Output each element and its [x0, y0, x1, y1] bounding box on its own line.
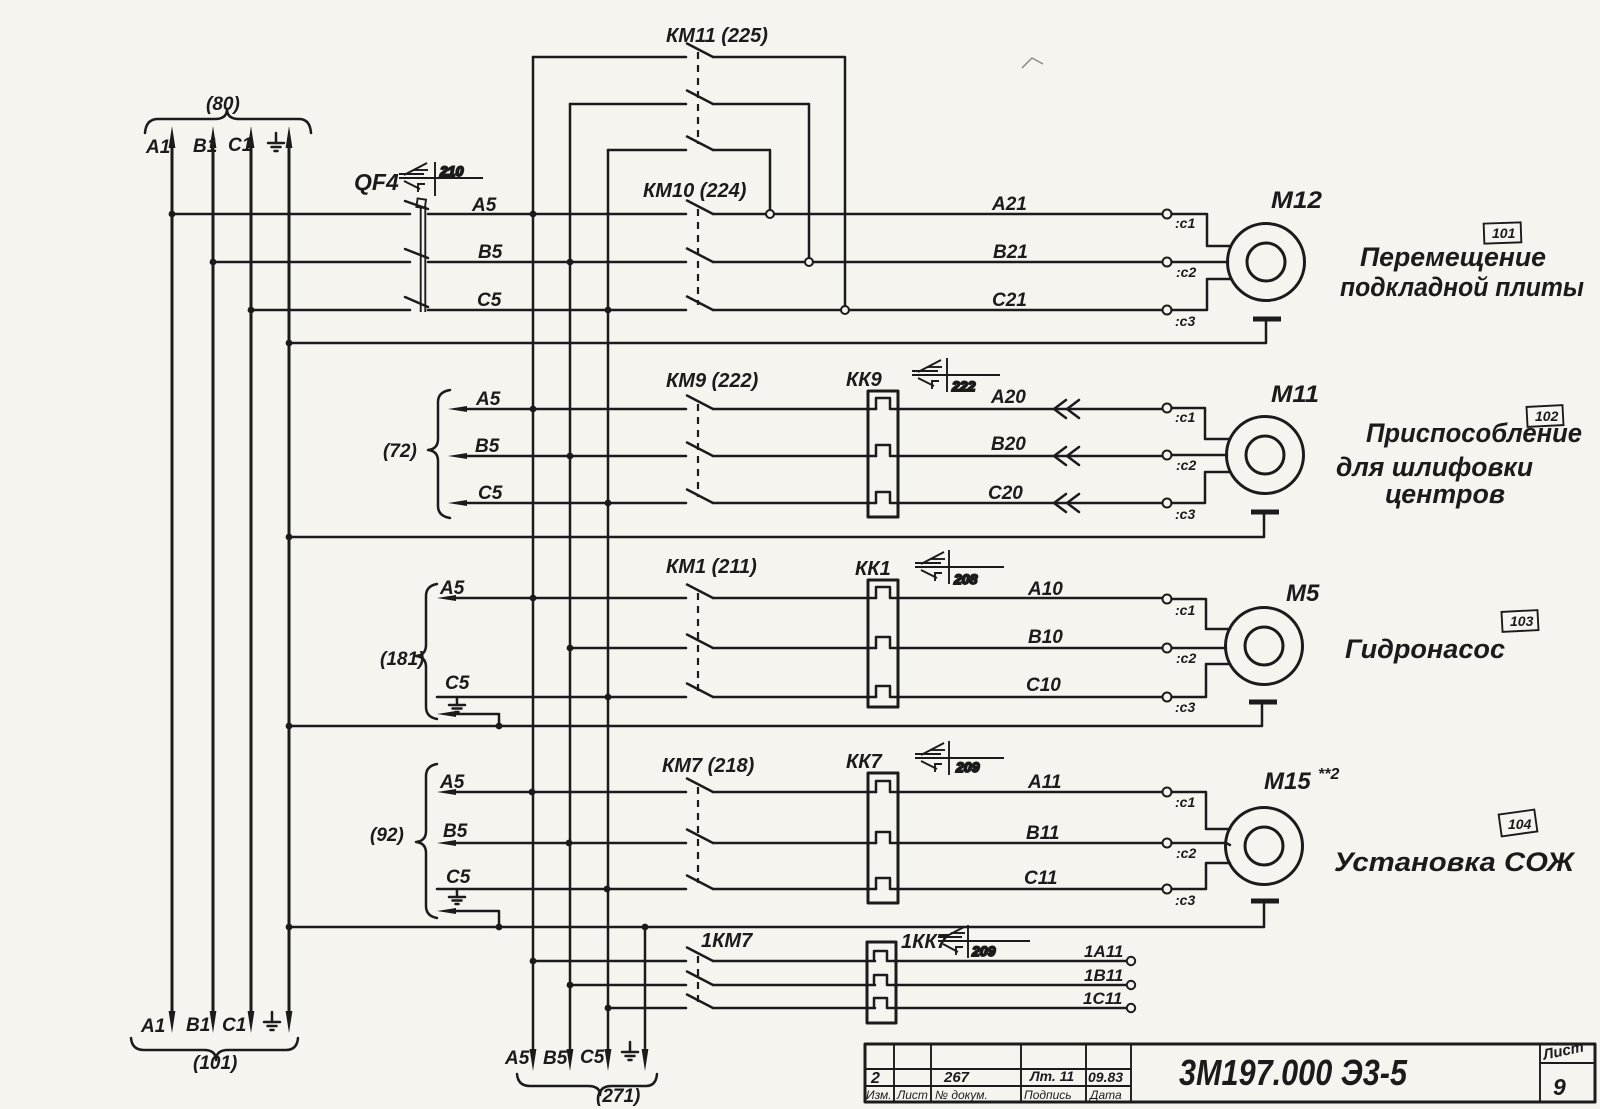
svg-text:С21: С21 [992, 290, 1027, 311]
svg-text:А5: А5 [439, 578, 465, 599]
contactor KM11 pole2 [570, 91, 809, 260]
svg-text:267: 267 [943, 1069, 970, 1086]
terminal M12 :c3 [1163, 306, 1196, 330]
ground bar M15 [1251, 899, 1279, 904]
svg-text:Изм.: Изм. [866, 1088, 892, 1102]
svg-text:С11: С11 [1024, 868, 1057, 889]
svg-text::с2: :с2 [1176, 457, 1196, 473]
wire B5 from B1 to QF4 [213, 261, 410, 264]
wire C21 [849, 290, 1163, 311]
motor M12 [1228, 187, 1323, 301]
bus A1 [140, 126, 175, 1037]
node C5 bus group72 [605, 500, 612, 507]
svg-text:QF4: QF4 [354, 169, 399, 195]
node PE tap4 [286, 924, 293, 931]
svg-text:1КК7: 1КК7 [901, 931, 949, 953]
chevrons C20 [1054, 494, 1079, 512]
svg-text:В1: В1 [186, 1015, 210, 1036]
contactor KM10 pole2 [687, 249, 805, 263]
1KM7 linkage [697, 956, 699, 1003]
node A5 bus group5 [530, 958, 537, 965]
title block frame [865, 1044, 1595, 1102]
svg-text:М11: М11 [1271, 381, 1319, 408]
svg-text:Дата: Дата [1088, 1088, 1122, 1102]
svg-text:209: 209 [971, 943, 996, 959]
wire M15 stub c1 [1172, 792, 1231, 829]
ground symbol group181 [449, 697, 465, 712]
bus PE ground [286, 126, 293, 1033]
ground symbol top left [268, 133, 284, 151]
node A5 bus group92 [529, 789, 536, 796]
svg-text:104: 104 [1508, 816, 1532, 832]
terminal 1B11 [1084, 966, 1135, 989]
wire M5 stub c2 [1172, 647, 1227, 650]
wire A5 tap group92 [437, 772, 686, 795]
svg-text:С5: С5 [477, 290, 502, 311]
note 104 box [1499, 810, 1538, 837]
wire 1C tap [608, 1007, 686, 1010]
svg-text:208: 208 [953, 571, 978, 587]
svg-text:подкладной плиты: подкладной плиты [1340, 272, 1584, 302]
stray scan mark [1022, 58, 1043, 68]
wire B5 QF4 to KM10 [428, 261, 686, 264]
svg-text:С5: С5 [446, 867, 471, 888]
wire M11 stub c2 [1172, 454, 1228, 457]
svg-text:Лт. 11: Лт. 11 [1029, 1068, 1074, 1084]
wire M15 stub c3 [1172, 863, 1231, 889]
contactor KM9 pole3 [687, 490, 876, 504]
wire M5 stub c1 [1172, 599, 1231, 629]
svg-text:КК7: КК7 [846, 751, 883, 773]
svg-text:А1: А1 [140, 1016, 165, 1037]
node C5 bus group92 [604, 886, 611, 893]
contactor 1KM7 pole1 [687, 948, 875, 962]
wire B tap group181 [570, 647, 686, 650]
chevrons B20 [1054, 447, 1079, 465]
ground symbol group92 [449, 889, 465, 904]
note 103 box [1502, 610, 1539, 632]
ground symbol bottom middle [622, 1042, 638, 1060]
svg-text:(271): (271) [596, 1086, 640, 1107]
node PE tap1 [286, 340, 293, 347]
svg-text:1С11: 1С11 [1083, 989, 1122, 1008]
svg-text:А10: А10 [1027, 579, 1063, 600]
wire C5 tap group181 [437, 673, 686, 697]
svg-text:1А11: 1А11 [1084, 942, 1123, 961]
bus A5 vertical [532, 57, 535, 1052]
bus B1 [186, 126, 217, 1036]
svg-text:210: 210 [439, 163, 464, 179]
svg-text:2: 2 [870, 1070, 880, 1087]
svg-text::с2: :с2 [1176, 264, 1196, 280]
note M11 function text [1336, 418, 1582, 509]
thermal relay KK7 [846, 751, 1163, 903]
wire M5 stub c3 [1172, 664, 1231, 697]
svg-text:Лист: Лист [896, 1088, 928, 1102]
node KM10-KM11 output C [841, 306, 849, 314]
thermal relay KK9 [846, 369, 1163, 517]
svg-text:(181): (181) [380, 649, 424, 670]
title block inner lines [865, 1044, 1595, 1102]
terminal M5 :c1 [1163, 595, 1196, 619]
svg-text:В10: В10 [1028, 627, 1063, 648]
bus C5 vertical [607, 150, 610, 1052]
svg-text:1КМ7: 1КМ7 [701, 930, 753, 952]
svg-text:КК1: КК1 [855, 558, 891, 580]
wire M15 stub c2 [1172, 843, 1231, 845]
svg-text:В20: В20 [991, 434, 1026, 455]
svg-text::с3: :с3 [1175, 506, 1195, 522]
svg-text::с3: :с3 [1175, 313, 1195, 329]
bus C1 [222, 126, 254, 1036]
chevrons A20 [1054, 400, 1079, 418]
wire 1B tap [570, 984, 686, 987]
brace (101) bottom [131, 1038, 298, 1074]
svg-text:КМ7 (218): КМ7 (218) [662, 755, 755, 777]
terminal M12 :c2 [1163, 258, 1197, 281]
svg-text:М5: М5 [1286, 580, 1320, 607]
wire C5 tap group72 [448, 483, 686, 506]
wire A5 QF4 to KM10 [428, 213, 686, 216]
wire A21 [774, 194, 1163, 215]
svg-text:С20: С20 [988, 483, 1023, 504]
svg-text:В21: В21 [993, 242, 1028, 263]
KK7 trip cross-reference 209 [915, 741, 1004, 775]
terminal M5 :c2 [1163, 644, 1197, 667]
svg-text:№ докум.: № докум. [935, 1088, 988, 1102]
svg-text:М12: М12 [1271, 187, 1323, 214]
title block entries [870, 1068, 1123, 1087]
svg-text:центров: центров [1385, 479, 1505, 509]
svg-text:Приспособление: Приспособление [1366, 418, 1582, 448]
contactor KM1 pole1 [687, 585, 876, 599]
ground symbol bottom left [264, 1012, 280, 1030]
svg-text:КМ11 (225): КМ11 (225) [666, 25, 768, 47]
svg-text:А1: А1 [145, 137, 170, 158]
KM11 linkage [697, 52, 699, 144]
svg-text:С10: С10 [1026, 675, 1061, 696]
svg-text:А21: А21 [991, 194, 1027, 215]
terminal M12 :c1 [1163, 210, 1196, 232]
KM1 linkage [697, 593, 699, 691]
contactor KM10 pole3 [687, 297, 841, 311]
wire C5 from C1 to QF4 [251, 309, 410, 312]
bus PE bottom drop [642, 927, 649, 1071]
wire A5 from A1 to QF4 [172, 213, 410, 216]
node C5 bus tap [605, 307, 612, 314]
svg-text:В5: В5 [543, 1048, 568, 1069]
contactor KM10 pole1 [687, 201, 766, 215]
svg-text::с1: :с1 [1175, 794, 1195, 810]
contactor 1KM7 pole3 [687, 995, 875, 1009]
svg-text:Подпись: Подпись [1024, 1088, 1072, 1102]
motor M11 [1227, 381, 1320, 494]
wire C5 tap group92 [437, 867, 686, 889]
node A5 bus tap [530, 211, 537, 218]
svg-text:**2: **2 [1318, 766, 1339, 783]
svg-text:101: 101 [1492, 225, 1516, 241]
node B1-B5 tap [210, 259, 217, 266]
QF4 trip cross-reference 210 [399, 162, 483, 196]
wire PE to M15 ground [289, 904, 1264, 927]
KM9 linkage [697, 404, 699, 497]
contactor KM11 pole1 [533, 44, 845, 308]
motor M15 [1226, 766, 1340, 885]
node B5 bus group92 [566, 840, 573, 847]
svg-text:В5: В5 [478, 242, 503, 263]
KK1 trip cross-reference 208 [915, 550, 1004, 587]
svg-text:КМ9 (222): КМ9 (222) [666, 370, 759, 392]
svg-text:222: 222 [951, 378, 976, 394]
wire 1A tap [533, 960, 686, 963]
wire A5 tap group72 [448, 389, 686, 412]
svg-text::с2: :с2 [1176, 650, 1196, 666]
terminal 1A11 [1084, 942, 1135, 965]
terminal M5 :c3 [1163, 693, 1196, 716]
node PE bottom tap [642, 924, 649, 931]
node A5 bus group72 [530, 406, 537, 413]
svg-text:А5: А5 [504, 1048, 530, 1069]
svg-text:С1: С1 [222, 1015, 246, 1036]
node B5 bus group181 [567, 645, 574, 652]
wire C5 QF4 to KM10 [428, 309, 686, 312]
bus A5 bottom arrow [504, 1048, 536, 1071]
node B5 bus group72 [567, 453, 574, 460]
svg-text:С5: С5 [580, 1047, 605, 1068]
svg-text:3М197.000 Э3-5: 3М197.000 Э3-5 [1179, 1052, 1408, 1093]
motor M5 [1226, 580, 1320, 685]
brace (181) [380, 584, 437, 719]
brace (80) top [145, 94, 311, 133]
wire PE to M12 ground [289, 321, 1266, 343]
contactor KM7 pole3 [687, 876, 876, 890]
svg-text:(80): (80) [206, 94, 240, 115]
wire PE stub group92 [437, 908, 499, 927]
svg-text:А5: А5 [475, 389, 501, 410]
node PE tap3 [286, 723, 293, 730]
svg-text:В5: В5 [443, 821, 468, 842]
node A1-A5 tap [169, 211, 176, 218]
note 102 box [1527, 405, 1564, 427]
svg-text:для шлифовки: для шлифовки [1336, 452, 1533, 482]
wire PE to M11 ground [289, 514, 1264, 537]
bus B5 bottom arrow [543, 1048, 573, 1071]
contactor KM11 pole3 [608, 137, 770, 211]
thermal relay 1KK7 [867, 931, 1127, 1023]
wire PE to M5 ground [289, 705, 1262, 726]
svg-text:С5: С5 [478, 483, 503, 504]
svg-text:КК9: КК9 [846, 369, 883, 391]
contactor KM7 pole1 [687, 779, 876, 793]
ground bar M12 [1253, 317, 1281, 322]
wire M11 stub c3 [1172, 472, 1230, 503]
svg-text::с2: :с2 [1176, 845, 1196, 861]
wire M12 stub c3 [1172, 279, 1232, 310]
KM10 linkage [697, 209, 699, 305]
svg-text:М15: М15 [1264, 768, 1311, 795]
node KM10-KM11 output B [805, 258, 813, 266]
ground bar M5 [1249, 700, 1277, 705]
node PE stub group92 [496, 924, 503, 931]
terminal 1C11 [1083, 989, 1135, 1012]
svg-text::с3: :с3 [1175, 892, 1195, 908]
svg-text:А5: А5 [439, 772, 465, 793]
svg-text:В1: В1 [193, 136, 217, 157]
brace (72) [383, 390, 450, 518]
title block row labels [866, 1088, 1122, 1102]
terminal M15 :c3 [1163, 885, 1196, 909]
node B5 bus group5 [567, 982, 574, 989]
svg-text:1В11: 1В11 [1084, 966, 1123, 985]
svg-text:Перемещение: Перемещение [1360, 242, 1546, 272]
wire M12 stub c1 [1172, 214, 1232, 246]
node KM10-KM11 output A [766, 210, 774, 218]
terminal M11 :c1 [1163, 404, 1196, 426]
wire A5 tap group181 [437, 578, 686, 601]
svg-text:(101): (101) [193, 1053, 237, 1074]
terminal M11 :c2 [1163, 451, 1197, 474]
svg-text:С5: С5 [445, 673, 470, 694]
ground bar M11 [1251, 510, 1279, 515]
terminal M15 :c2 [1163, 839, 1197, 862]
breaker QF4 [354, 169, 428, 312]
svg-text:КМ10 (224): КМ10 (224) [643, 180, 747, 202]
wire B5 tap group92 [437, 821, 686, 846]
wire M11 stub c1 [1172, 408, 1230, 439]
svg-text:Гидронасос: Гидронасос [1345, 634, 1505, 664]
svg-text:9: 9 [1553, 1074, 1566, 1100]
title block sheet label [1541, 1039, 1586, 1100]
KK9 trip cross-reference 222 [912, 358, 1000, 394]
terminal M11 :c3 [1163, 499, 1196, 523]
contactor KM9 pole2 [687, 443, 876, 457]
brace (92) [370, 764, 437, 918]
node B5 bus tap [567, 259, 574, 266]
svg-text:(92): (92) [370, 825, 404, 846]
wire B5 tap group72 [448, 436, 686, 459]
svg-text:В5: В5 [475, 436, 500, 457]
svg-text::с3: :с3 [1175, 699, 1195, 715]
svg-text:103: 103 [1510, 613, 1534, 629]
1KK7 trip cross-reference 209 [938, 925, 1030, 959]
svg-text:В11: В11 [1026, 823, 1059, 844]
note M12 function text [1340, 242, 1584, 302]
contactor KM1 pole3 [687, 684, 876, 698]
node PE tap2 [286, 534, 293, 541]
node C5 bus group5 [605, 1005, 612, 1012]
svg-text:С1: С1 [228, 135, 252, 156]
brace (271) [517, 1074, 657, 1107]
node PE stub group181 [496, 723, 503, 730]
svg-text:(72): (72) [383, 441, 417, 462]
node C5 bus group181 [605, 694, 612, 701]
wire M12 stub c2 [1172, 261, 1229, 264]
bus C5 bottom arrow [580, 1047, 611, 1071]
note 101 box [1484, 222, 1522, 243]
svg-text:А20: А20 [990, 387, 1026, 408]
contactor KM7 pole2 [687, 830, 876, 844]
wire PE stub group181 [437, 711, 499, 726]
node C1-C5 tap [248, 307, 255, 314]
contactor 1KM7 pole2 [687, 972, 875, 986]
wire B21 [813, 242, 1163, 263]
svg-text:09.83: 09.83 [1088, 1069, 1123, 1085]
node A5 bus group181 [530, 595, 537, 602]
svg-text:А11: А11 [1027, 772, 1061, 793]
KM7 linkage [697, 787, 699, 883]
svg-text:КМ1 (211): КМ1 (211) [666, 556, 757, 578]
contactor KM9 pole1 [687, 396, 876, 410]
svg-text::с1: :с1 [1175, 215, 1195, 231]
svg-text::с1: :с1 [1175, 409, 1195, 425]
contactor KM1 pole2 [687, 635, 876, 649]
bus B5 vertical [569, 104, 572, 1052]
svg-text::с1: :с1 [1175, 602, 1195, 618]
terminal M15 :c1 [1163, 788, 1196, 811]
svg-text:Установка СОЖ: Установка СОЖ [1334, 847, 1576, 877]
thermal relay KK1 [855, 558, 1163, 707]
svg-text:209: 209 [955, 759, 980, 775]
